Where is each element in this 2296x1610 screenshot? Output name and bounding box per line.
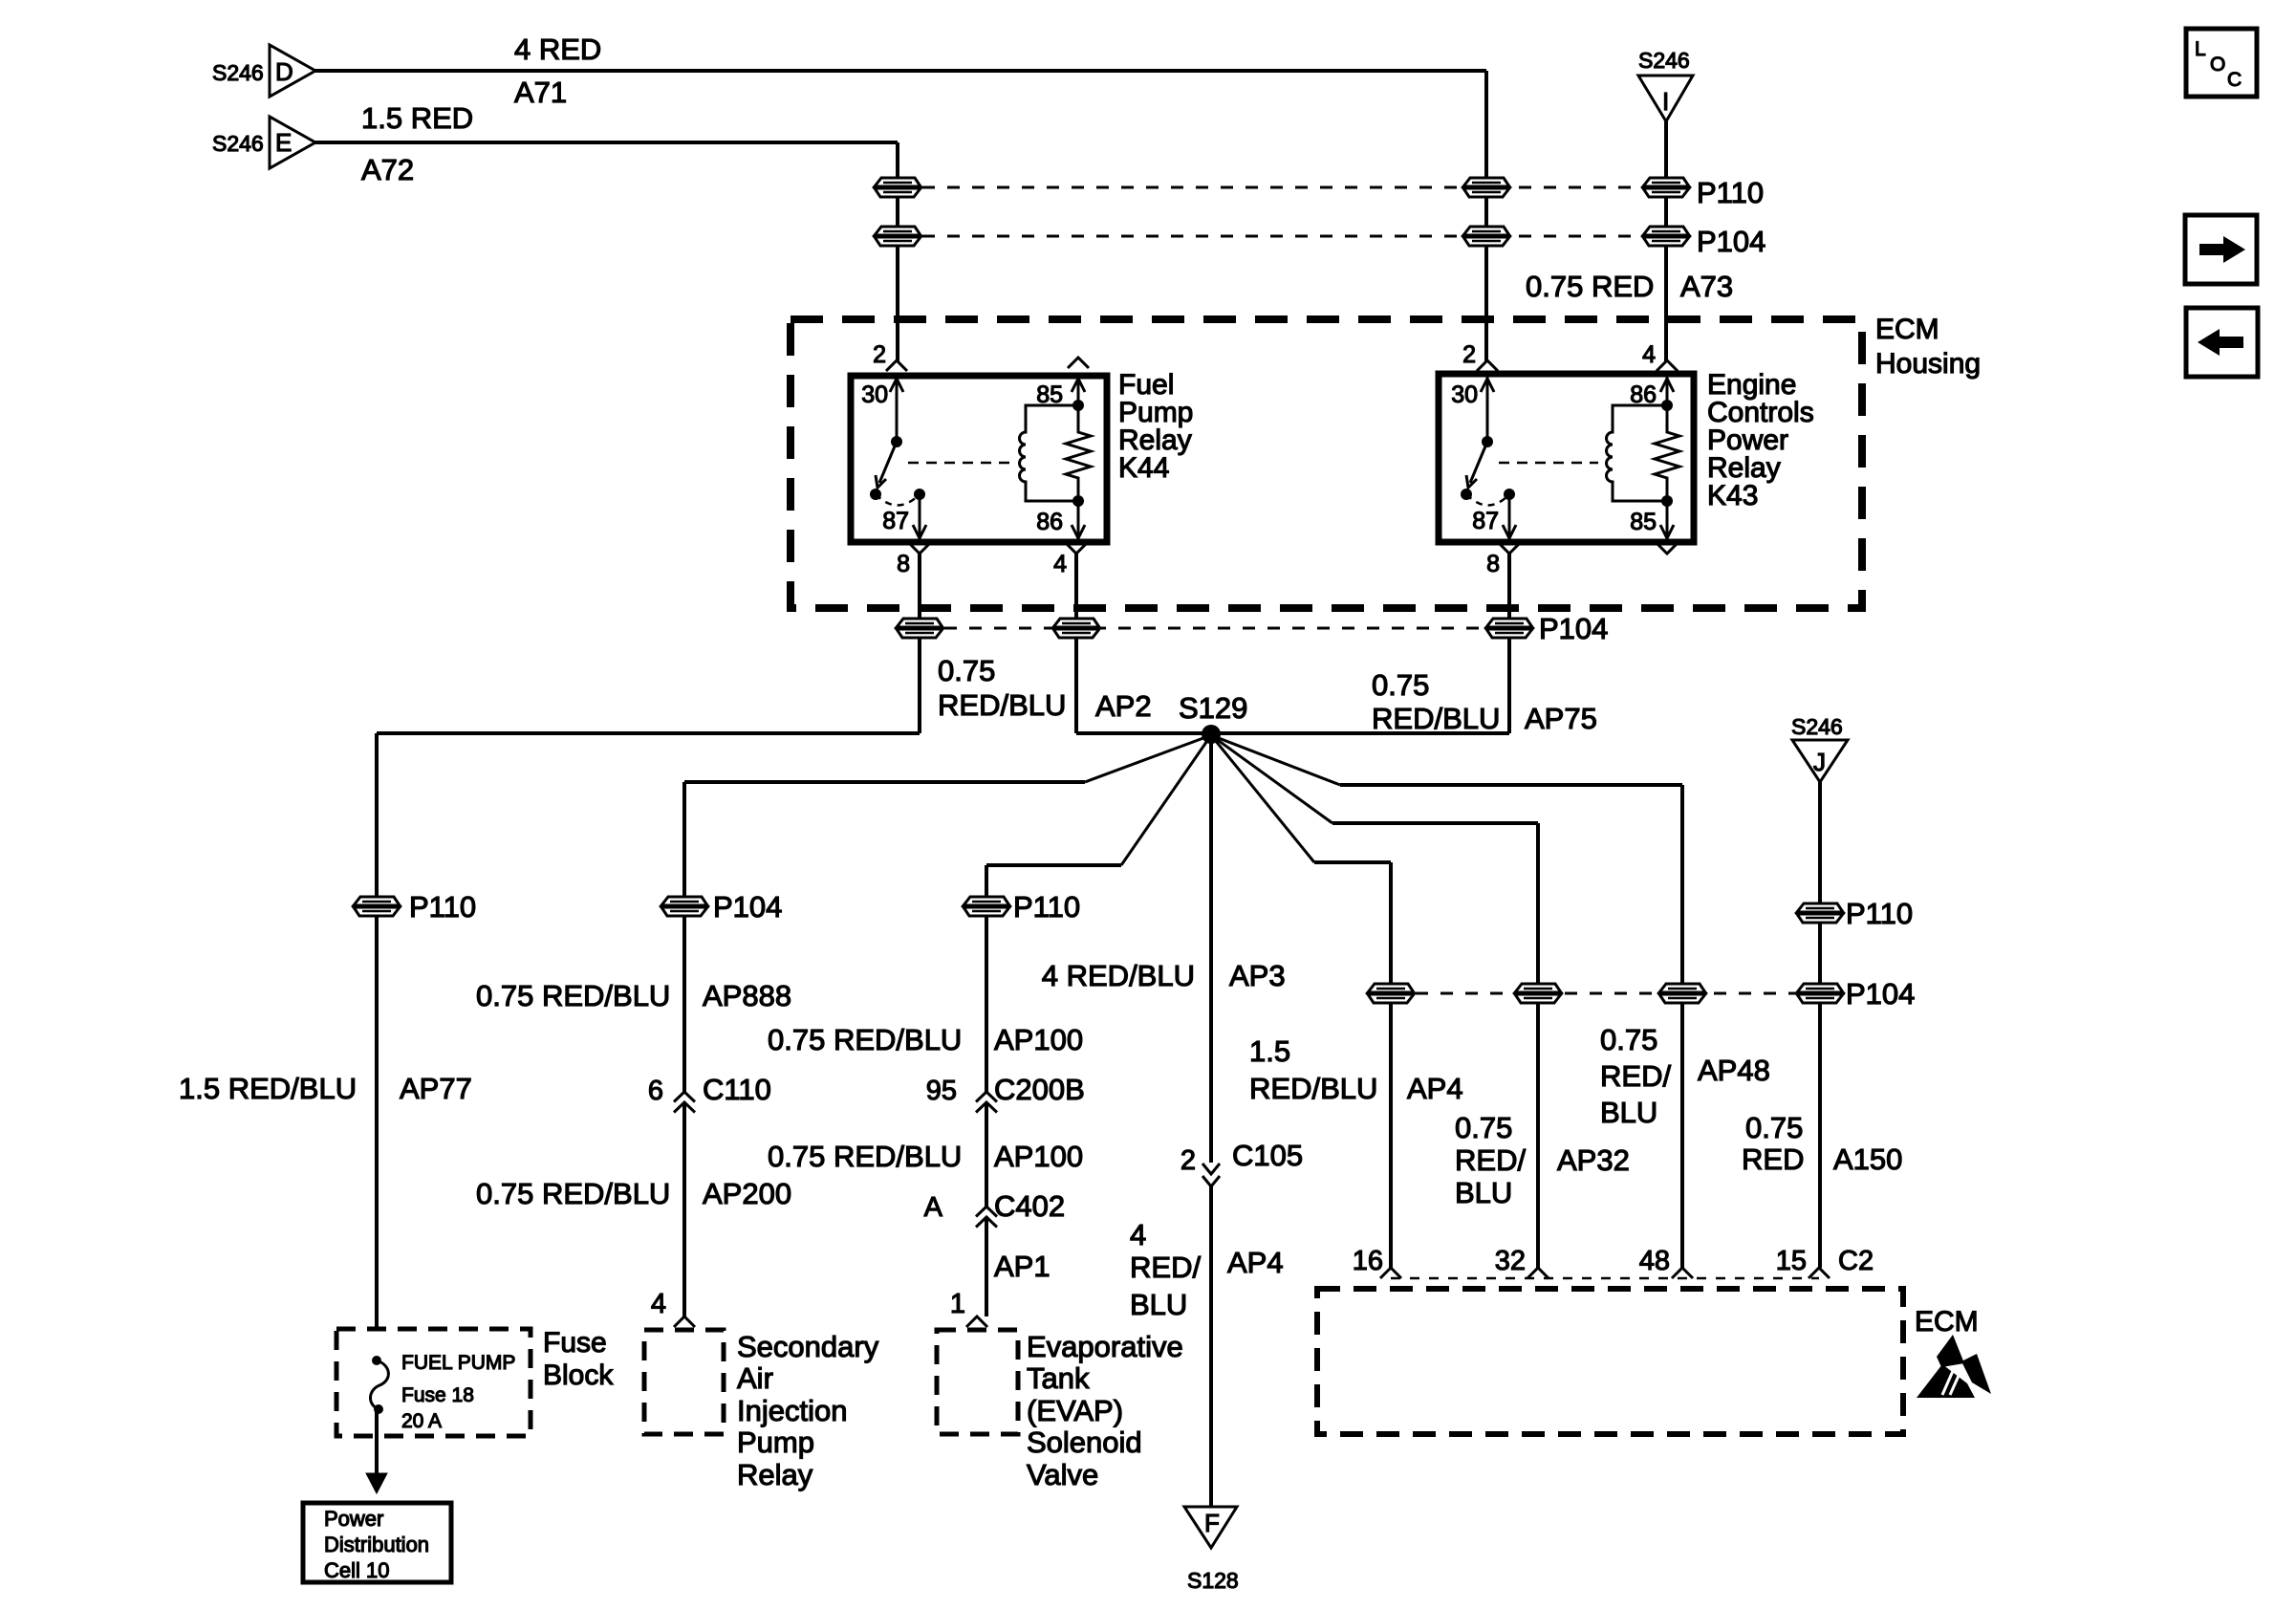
svg-text:Fuse 18: Fuse 18 xyxy=(401,1384,474,1406)
wire 4 RED A71 xyxy=(315,69,1486,73)
fuse FUEL PUMP Fuse 18 20 A xyxy=(372,1356,381,1365)
svg-text:AP2: AP2 xyxy=(1095,689,1152,723)
svg-text:Secondary: Secondary xyxy=(737,1330,879,1363)
svg-text:AP1: AP1 xyxy=(994,1250,1051,1283)
svg-text:P110: P110 xyxy=(409,890,476,924)
ESD sensitive symbol xyxy=(1917,1335,1991,1398)
svg-text:ECM: ECM xyxy=(1875,314,1939,345)
wire branch to AP32 xyxy=(1211,735,1332,823)
svg-text:0.75: 0.75 xyxy=(1745,1111,1803,1144)
svg-text:AP100: AP100 xyxy=(994,1140,1083,1173)
relay K44 switch blade xyxy=(879,442,897,483)
svg-text:Injection: Injection xyxy=(737,1394,847,1427)
relay K43 pin 87 line xyxy=(1508,494,1511,542)
relay K44 actuation dashed link xyxy=(908,462,1011,465)
legend left arrow box xyxy=(2186,308,2258,377)
svg-text:L: L xyxy=(2195,38,2206,60)
svg-text:K43: K43 xyxy=(1707,480,1758,511)
svg-text:Block: Block xyxy=(543,1360,614,1391)
relay K44 junction dots xyxy=(1072,400,1084,411)
connector P110 on AP77 xyxy=(352,897,401,916)
svg-text:4 RED/BLU: 4 RED/BLU xyxy=(1042,959,1195,992)
legend right arrow box xyxy=(2185,215,2257,284)
wire segment - dashed link row P104 (middle) xyxy=(920,627,1509,630)
connector P110 on AP100 xyxy=(962,897,1011,916)
relay K44 pin 30 contact xyxy=(896,376,899,442)
svg-text:8: 8 xyxy=(1486,551,1500,577)
connector P104 on A72 xyxy=(873,227,922,246)
wire 0.75 RED A150 xyxy=(1818,782,1822,903)
svg-text:4 RED: 4 RED xyxy=(514,33,601,66)
evaporative tank EVAP solenoid valve box xyxy=(937,1330,1018,1434)
svg-text:0.75 RED: 0.75 RED xyxy=(1526,270,1654,303)
svg-text:(EVAP): (EVAP) xyxy=(1027,1394,1123,1427)
svg-text:AP100: AP100 xyxy=(994,1023,1083,1056)
connector P104 on A73 xyxy=(1641,227,1691,246)
svg-text:P104: P104 xyxy=(713,890,782,924)
wire 4 RED/BLU AP3 main drop xyxy=(1209,735,1213,1163)
svg-text:A72: A72 xyxy=(361,153,414,186)
svg-text:S246: S246 xyxy=(1638,48,1690,73)
svg-text:4: 4 xyxy=(1130,1218,1146,1251)
svg-text:ECM: ECM xyxy=(1915,1306,1979,1338)
svg-text:A: A xyxy=(924,1192,943,1223)
connector S246 J xyxy=(1792,740,1848,782)
connector P104 on A150 xyxy=(1795,984,1845,1003)
relay K44 pin 4 exit xyxy=(1066,543,1087,554)
connector S246 I xyxy=(1638,76,1693,121)
wire AP77 from relay K44 pin 8 xyxy=(918,554,921,619)
svg-text:RED/BLU: RED/BLU xyxy=(938,688,1066,722)
svg-text:0.75 RED/BLU: 0.75 RED/BLU xyxy=(476,1177,670,1210)
svg-text:F: F xyxy=(1204,1509,1220,1537)
svg-text:AP4: AP4 xyxy=(1227,1246,1284,1279)
svg-text:A73: A73 xyxy=(1680,270,1733,303)
svg-text:4: 4 xyxy=(651,1289,666,1319)
svg-text:4: 4 xyxy=(1053,551,1067,577)
relay K43 junction dots xyxy=(1661,400,1673,411)
svg-text:Fuse: Fuse xyxy=(543,1327,607,1359)
svg-text:1: 1 xyxy=(950,1289,965,1319)
svg-text:86: 86 xyxy=(1630,381,1657,408)
relay K44 coil stub above box xyxy=(1068,358,1089,368)
relay K43 switch blade xyxy=(1470,442,1487,483)
svg-text:AP77: AP77 xyxy=(400,1072,472,1105)
wire segment - dashed link row P104 (top) xyxy=(898,235,1666,238)
splice bus S129 xyxy=(1076,731,1509,735)
fuse block dashed box xyxy=(336,1329,531,1436)
svg-text:Housing: Housing xyxy=(1875,348,1981,380)
svg-text:95: 95 xyxy=(926,1076,957,1106)
svg-text:S246: S246 xyxy=(1791,714,1843,739)
svg-text:30: 30 xyxy=(1451,381,1478,408)
svg-text:87: 87 xyxy=(1472,508,1499,534)
svg-text:A71: A71 xyxy=(514,76,567,109)
svg-text:RED/: RED/ xyxy=(1130,1251,1201,1284)
relay K44 pin 86 line xyxy=(1077,501,1080,542)
relay K44 resistor xyxy=(1066,405,1091,501)
svg-text:30: 30 xyxy=(861,381,888,408)
svg-text:AP32: AP32 xyxy=(1557,1143,1630,1177)
svg-text:C2: C2 xyxy=(1838,1246,1874,1276)
svg-text:0.75 RED/BLU: 0.75 RED/BLU xyxy=(768,1023,962,1056)
connector P110 on A73 xyxy=(1641,178,1691,197)
svg-text:Cell 10: Cell 10 xyxy=(324,1558,389,1582)
svg-text:S129: S129 xyxy=(1179,691,1247,725)
wire 0.75 RED/BLU AP75 xyxy=(1507,554,1511,619)
svg-text:86: 86 xyxy=(1036,509,1063,535)
svg-text:J: J xyxy=(1813,748,1826,776)
svg-text:20 A: 20 A xyxy=(401,1410,442,1432)
connector S246 E xyxy=(270,117,315,168)
svg-text:C: C xyxy=(2227,69,2242,91)
svg-text:Air: Air xyxy=(737,1361,773,1395)
svg-text:D: D xyxy=(275,57,293,86)
power distribution cell 10 box xyxy=(303,1503,451,1582)
relay K43 contact dots xyxy=(1461,489,1472,500)
svg-text:0.75 RED/BLU: 0.75 RED/BLU xyxy=(768,1140,962,1173)
svg-text:P104: P104 xyxy=(1846,977,1915,1011)
svg-text:Solenoid: Solenoid xyxy=(1027,1425,1142,1459)
svg-text:Tank: Tank xyxy=(1027,1361,1090,1395)
svg-text:RED/BLU: RED/BLU xyxy=(1249,1072,1377,1105)
connector P104 on AP32 xyxy=(1513,984,1563,1003)
svg-text:S128: S128 xyxy=(1187,1568,1239,1593)
svg-text:RED/BLU: RED/BLU xyxy=(1372,702,1500,735)
wire branch to AP4 xyxy=(1211,735,1314,862)
svg-text:AP200: AP200 xyxy=(703,1177,791,1210)
svg-text:RED/: RED/ xyxy=(1600,1059,1671,1093)
svg-text:15: 15 xyxy=(1776,1246,1807,1276)
svg-text:C200B: C200B xyxy=(994,1073,1085,1106)
svg-text:C402: C402 xyxy=(994,1189,1065,1223)
svg-text:AP48: AP48 xyxy=(1698,1054,1770,1087)
connector P104 on AP75 xyxy=(1484,619,1534,638)
wire branch to AP888 xyxy=(1085,735,1211,782)
svg-text:2: 2 xyxy=(873,341,886,368)
relay K44 contact arc xyxy=(876,494,920,506)
svg-text:S246: S246 xyxy=(212,131,264,156)
relay K43 box xyxy=(1439,374,1694,542)
wire segment - dashed link row P110 (top) xyxy=(898,186,1666,189)
relay K43 pin 2 entry xyxy=(1477,360,1498,371)
svg-text:32: 32 xyxy=(1495,1246,1526,1276)
relay K44 contact dots xyxy=(870,489,881,500)
svg-text:8: 8 xyxy=(897,551,910,577)
svg-text:0.75 RED/BLU: 0.75 RED/BLU xyxy=(476,979,670,1012)
svg-text:2: 2 xyxy=(1462,341,1476,368)
wire branch to AP48 xyxy=(1211,735,1340,785)
secondary air injection pump relay box xyxy=(644,1330,724,1434)
relay K43 coil xyxy=(1607,405,1667,501)
connector P110 on A71 xyxy=(1462,178,1511,197)
svg-text:E: E xyxy=(275,128,292,157)
svg-text:P110: P110 xyxy=(1697,176,1764,209)
svg-text:BLU: BLU xyxy=(1600,1096,1657,1129)
svg-text:1.5 RED: 1.5 RED xyxy=(361,101,473,135)
relay K43 pin 85 stub below box xyxy=(1657,543,1678,554)
inline connector C105 xyxy=(1202,1164,1220,1174)
splice node S129 xyxy=(1202,725,1221,744)
relay K43 pin 86 line xyxy=(1666,374,1669,405)
svg-text:P104: P104 xyxy=(1539,612,1608,645)
connector P104 on A71 xyxy=(1462,227,1511,246)
svg-text:1.5: 1.5 xyxy=(1249,1034,1290,1068)
relay K43 pin 85 line xyxy=(1666,501,1669,542)
svg-text:AP4: AP4 xyxy=(1407,1072,1463,1105)
svg-text:AP888: AP888 xyxy=(703,979,791,1012)
svg-text:RED: RED xyxy=(1742,1142,1804,1176)
connector P104 on AP2 xyxy=(1051,619,1101,638)
relay K44 pin 8 exit xyxy=(909,543,930,554)
svg-text:0.75: 0.75 xyxy=(1455,1111,1512,1144)
relay K43 pin 30 contact xyxy=(1486,376,1489,442)
relay K44 pin 2 entry xyxy=(886,360,907,371)
ECM pin 48 xyxy=(1672,1268,1693,1278)
svg-text:BLU: BLU xyxy=(1455,1176,1512,1209)
connector P104 on AP77 xyxy=(895,619,944,638)
wire 0.75 RED A73 xyxy=(1664,121,1668,178)
wire branch to AP100 xyxy=(1121,735,1211,865)
svg-text:FUEL PUMP: FUEL PUMP xyxy=(401,1352,515,1374)
ECM pin 15 xyxy=(1809,1268,1830,1278)
svg-text:C110: C110 xyxy=(703,1073,771,1106)
svg-text:O: O xyxy=(2210,54,2225,76)
ECM pin 16 xyxy=(1380,1268,1401,1278)
relay K43 pin 8 exit xyxy=(1499,543,1520,554)
relay K43 actuation dashed link xyxy=(1499,462,1598,465)
svg-text:P110: P110 xyxy=(1846,897,1913,930)
connector P104 on AP888 xyxy=(660,897,709,916)
legend LOC box xyxy=(2186,29,2257,97)
ECM Housing dashed box xyxy=(791,319,1862,608)
svg-text:0.75: 0.75 xyxy=(1372,668,1429,702)
svg-text:0.75: 0.75 xyxy=(1600,1023,1657,1056)
svg-text:P110: P110 xyxy=(1013,890,1080,924)
svg-text:Relay: Relay xyxy=(737,1458,813,1491)
connector P104 on AP48 xyxy=(1657,984,1707,1003)
svg-text:Evaporative: Evaporative xyxy=(1027,1330,1183,1363)
ECM dashed box xyxy=(1317,1289,1903,1434)
relay K43 contact arc xyxy=(1466,494,1509,506)
svg-text:AP3: AP3 xyxy=(1229,959,1286,992)
ECM pin 32 xyxy=(1527,1268,1549,1278)
svg-text:BLU: BLU xyxy=(1130,1288,1187,1321)
svg-text:A150: A150 xyxy=(1833,1142,1902,1176)
relay K44 coil xyxy=(1020,405,1078,501)
relay K43 resistor xyxy=(1655,405,1679,501)
svg-text:RED/: RED/ xyxy=(1455,1143,1526,1177)
svg-text:C105: C105 xyxy=(1232,1139,1303,1172)
svg-text:16: 16 xyxy=(1353,1246,1383,1276)
svg-text:Pump: Pump xyxy=(737,1425,814,1459)
connector P110 on A150 xyxy=(1795,903,1845,923)
connector P104 on AP4 xyxy=(1366,984,1416,1003)
svg-text:85: 85 xyxy=(1036,381,1063,408)
svg-text:0.75: 0.75 xyxy=(938,654,995,687)
connector S246 D xyxy=(270,45,315,97)
wire to power distribution xyxy=(375,1409,379,1476)
inline connector C200B xyxy=(976,1092,997,1102)
svg-text:85: 85 xyxy=(1630,509,1657,535)
relay K44 box xyxy=(851,376,1107,542)
svg-text:K44: K44 xyxy=(1118,452,1169,484)
svg-text:P104: P104 xyxy=(1697,225,1765,258)
connector P110 on A72 xyxy=(873,178,922,197)
svg-text:48: 48 xyxy=(1639,1246,1670,1276)
svg-text:1.5 RED/BLU: 1.5 RED/BLU xyxy=(179,1072,357,1105)
wire 0.75 RED/BLU AP2 xyxy=(1074,554,1078,619)
svg-text:S246: S246 xyxy=(212,60,264,85)
connector S246 F S128 xyxy=(1184,1507,1237,1548)
svg-text:Power: Power xyxy=(324,1507,383,1531)
svg-text:I: I xyxy=(1662,87,1669,116)
svg-text:AP75: AP75 xyxy=(1525,702,1597,735)
inline connector C110 xyxy=(674,1092,695,1102)
svg-text:2: 2 xyxy=(1180,1145,1196,1176)
svg-text:Valve: Valve xyxy=(1027,1458,1098,1491)
svg-text:Distribution: Distribution xyxy=(324,1533,429,1556)
relay K44 pin 87 line xyxy=(919,494,921,542)
svg-text:6: 6 xyxy=(648,1076,663,1106)
wire segment - dashed link row P104 (lower) xyxy=(1391,992,1820,995)
svg-text:87: 87 xyxy=(882,508,909,534)
inline connector C402 xyxy=(976,1207,997,1217)
wire 1.5 RED A72 xyxy=(315,141,898,144)
relay K43 pin 4 entry xyxy=(1657,360,1678,371)
svg-text:4: 4 xyxy=(1642,341,1656,368)
wire segment - dashed pin row at ECM C2 xyxy=(1391,1277,1819,1280)
relay K44 pin 85 line xyxy=(1077,376,1080,405)
